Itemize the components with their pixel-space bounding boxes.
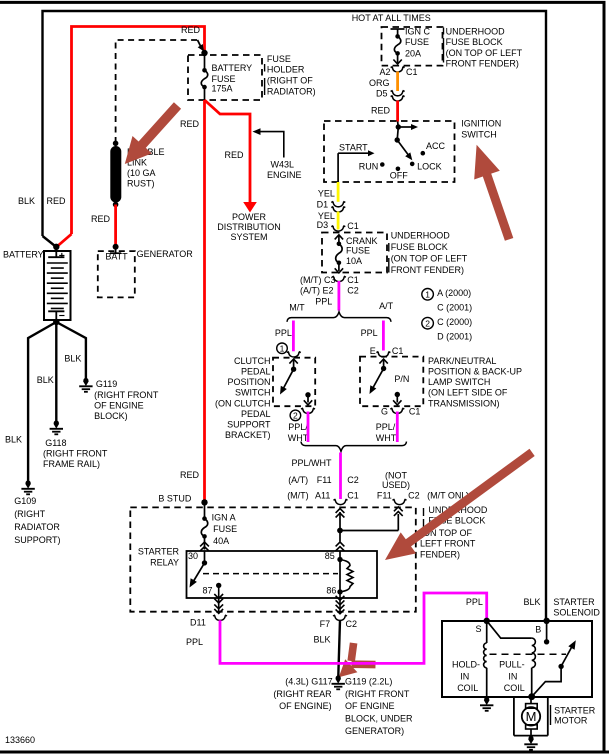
svg-text:(ON LEFT SIDE OF: (ON LEFT SIDE OF [428, 388, 508, 398]
underhood fuse block box (CRANK, dashed) [322, 233, 387, 273]
svg-text:STARTER: STARTER [554, 705, 596, 715]
svg-text:RED: RED [225, 150, 245, 160]
svg-text:C1: C1 [347, 490, 359, 500]
underhood fuse block box (IGN C, dashed) [382, 27, 443, 66]
svg-text:C2: C2 [408, 490, 420, 500]
svg-text:D3: D3 [317, 220, 329, 230]
svg-text:UNDERHOOD: UNDERHOOD [446, 26, 506, 36]
svg-text:(ON TOP OF LEFT: (ON TOP OF LEFT [446, 48, 523, 58]
svg-text:HOLDER: HOLDER [267, 65, 305, 75]
svg-text:PPL: PPL [186, 637, 203, 647]
svg-text:(RIGHT FRONT: (RIGHT FRONT [43, 448, 108, 458]
relay 86 output chevrons [336, 596, 345, 600]
svg-text:BLK: BLK [18, 196, 35, 206]
svg-text:(10 GA: (10 GA [127, 168, 156, 178]
wire dashed (fusible link feed) [116, 40, 198, 143]
svg-text:(M/T) C3: (M/T) C3 [300, 275, 336, 285]
svg-text:C1: C1 [392, 346, 404, 356]
svg-text:A2: A2 [380, 67, 391, 77]
battery fuse 175A symbol [204, 55, 206, 70]
generator box (dashed) [98, 251, 135, 297]
svg-text:F7: F7 [320, 619, 331, 629]
ignition switch input node [397, 122, 400, 128]
svg-text:TRANSMISSION): TRANSMISSION) [428, 398, 500, 408]
svg-text:RED: RED [371, 105, 391, 115]
battery negative node [53, 319, 59, 325]
border frame right [603, 1, 606, 753]
svg-text:87: 87 [203, 585, 213, 595]
wire from A11 connector to junction [336, 509, 345, 513]
connector cup (P/N in) [376, 352, 390, 357]
starter motor enclosure [513, 697, 515, 736]
starter solenoid box [442, 621, 592, 697]
P/N switch arm [372, 369, 384, 390]
junction node (85 feed) [337, 528, 343, 534]
solenoid B contact stub [546, 621, 548, 642]
svg-text:BATTERY: BATTERY [212, 63, 253, 73]
svg-text:BLK: BLK [5, 435, 22, 445]
label bracket ticks (relay underhood) [423, 508, 425, 516]
crank fuse 10A symbol [335, 235, 343, 240]
relay 87 output chevrons [214, 594, 223, 598]
svg-text:C1: C1 [409, 407, 421, 417]
svg-text:PPL/WHT: PPL/WHT [292, 458, 333, 468]
svg-text:BLK: BLK [524, 597, 541, 607]
label bracket tick (starter motor) [550, 705, 552, 725]
connector cup A11/C1 [334, 499, 348, 504]
svg-text:C (2000): C (2000) [437, 317, 472, 327]
svg-text:(ON TOP OF LEFT: (ON TOP OF LEFT [391, 253, 468, 263]
svg-text:LAMP SWITCH: LAMP SWITCH [428, 377, 490, 387]
connector D5 cups [391, 90, 405, 95]
svg-text:B STUD: B STUD [158, 493, 192, 503]
relay pin 87 contact [216, 583, 221, 588]
connector D3/C1 cup [331, 226, 345, 231]
svg-text:G119: G119 [96, 379, 117, 389]
svg-text:OF ENGINE): OF ENGINE) [279, 701, 332, 711]
svg-text:PPL: PPL [466, 597, 483, 607]
svg-text:2: 2 [293, 411, 298, 421]
node B STUD [201, 499, 207, 505]
border frame bottom [0, 751, 609, 754]
svg-text:ENGINE: ENGINE [267, 170, 302, 180]
svg-text:F11: F11 [317, 475, 332, 485]
svg-text:C2: C2 [346, 619, 358, 629]
svg-text:(RIGHT: (RIGHT [14, 509, 45, 519]
power distribution arrowhead [243, 202, 257, 213]
pointer arrow at ground G117/G119 [351, 643, 375, 665]
wire RED fusible link to generator BATT [114, 205, 117, 247]
svg-text:M/T: M/T [289, 302, 305, 312]
svg-text:STARTER: STARTER [553, 597, 595, 607]
svg-text:POWER: POWER [232, 212, 267, 222]
wire BLK to G118 [55, 322, 57, 421]
wire BLK (F7 to ground) [338, 620, 340, 676]
svg-text:FRONT FENDER): FRONT FENDER) [391, 265, 464, 275]
contact START [368, 150, 375, 156]
svg-text:W43L: W43L [271, 159, 295, 169]
wire BLK to G119 [56, 322, 86, 379]
svg-text:A11: A11 [315, 490, 330, 500]
svg-text:IGN C: IGN C [405, 26, 431, 36]
svg-text:85: 85 [325, 551, 335, 561]
svg-text:(RIGHT FRONT: (RIGHT FRONT [345, 689, 410, 699]
ignition switch wiper (to LOCK) [397, 140, 409, 157]
svg-text:(ON CLUTCH: (ON CLUTCH [215, 398, 271, 408]
ground G118 [54, 420, 59, 425]
svg-text:START: START [339, 142, 368, 152]
connector C1 (A2) cup [391, 67, 405, 72]
svg-text:SWITCH: SWITCH [235, 388, 271, 398]
connector cup (P/N out) [390, 408, 404, 413]
svg-text:40A: 40A [213, 536, 229, 546]
wire PPL (crank fuse to split) [337, 281, 340, 311]
legend note 1 [422, 289, 434, 301]
svg-text:FRONT FENDER): FRONT FENDER) [446, 59, 519, 69]
svg-text:HOLD-: HOLD- [452, 660, 480, 670]
svg-text:HOT AT ALL TIMES: HOT AT ALL TIMES [352, 13, 431, 23]
label bracket ticks (IGN C) [443, 28, 445, 35]
svg-text:G118: G118 [45, 438, 66, 448]
ground G119 [83, 378, 88, 383]
note 1 at clutch switch [277, 343, 288, 354]
svg-text:PEDAL: PEDAL [241, 367, 271, 377]
wire RED battery positive feed [57, 234, 72, 247]
svg-text:WHT: WHT [376, 433, 397, 443]
wire BLK battery negative feed (top run) [43, 11, 547, 620]
wire PPL/WHT (clutch to join) [307, 412, 310, 443]
svg-text:BATTERY: BATTERY [3, 249, 44, 259]
svg-text:DISTRIBUTION: DISTRIBUTION [217, 222, 281, 232]
ignition switch box (dashed) [324, 121, 455, 182]
svg-text:G: G [381, 407, 388, 417]
svg-text:S: S [476, 624, 482, 634]
svg-text:−: − [59, 310, 65, 322]
svg-text:CLUTCH: CLUTCH [234, 356, 271, 366]
pointer arrow at ignition switch [474, 145, 513, 241]
svg-text:IN: IN [460, 672, 469, 682]
underhood fuse block big box (dashed) [130, 507, 416, 611]
svg-text:PPL/: PPL/ [288, 422, 308, 432]
contact RUN dot [380, 162, 385, 167]
svg-text:OF ENGINE: OF ENGINE [94, 400, 144, 410]
svg-text:BLK: BLK [37, 375, 54, 385]
svg-text:C2: C2 [347, 286, 359, 296]
svg-text:PARK/NEUTRAL: PARK/NEUTRAL [428, 356, 496, 366]
ground G109 [26, 480, 31, 485]
svg-text:ORG: ORG [369, 78, 390, 88]
svg-text:OFF: OFF [390, 171, 408, 181]
svg-text:RUN: RUN [359, 161, 379, 171]
svg-text:PEDAL: PEDAL [241, 409, 271, 419]
svg-text:G119 (2.2L): G119 (2.2L) [345, 677, 392, 687]
svg-text:YEL: YEL [318, 188, 335, 198]
battery node (+ terminal junction) [53, 244, 59, 250]
P/N switch output contact [395, 392, 400, 397]
svg-text:C1: C1 [406, 67, 418, 77]
solenoid switch [558, 664, 563, 669]
wire PPL A/T branch [382, 321, 385, 351]
contact OFF dot [396, 167, 401, 172]
IGN C fuse 20A symbol [391, 28, 405, 30]
connector cup D11 [213, 615, 227, 620]
clutch switch input arrow [289, 359, 297, 364]
svg-text:OF ENGINE: OF ENGINE [345, 701, 395, 711]
wire BLK to G109 [28, 322, 56, 481]
svg-text:MOTOR: MOTOR [554, 715, 588, 725]
svg-text:GENERATOR: GENERATOR [137, 249, 194, 259]
svg-text:C1: C1 [347, 221, 359, 231]
svg-text:20A: 20A [405, 48, 421, 58]
park/neutral switch box (dashed) [360, 357, 423, 407]
svg-text:LEFT FRONT: LEFT FRONT [420, 539, 476, 549]
solenoid ground (hold-in) [484, 697, 489, 702]
svg-text:(RIGHT FRONT: (RIGHT FRONT [94, 390, 159, 400]
svg-text:RADIATOR: RADIATOR [14, 522, 60, 532]
ground G117/G119 [336, 675, 341, 680]
ignition switch pivot [397, 127, 398, 140]
connector C1/C2 cup (crank out) [332, 276, 346, 281]
wire RED branch to power distribution [205, 100, 251, 206]
svg-text:133660: 133660 [5, 735, 35, 745]
svg-text:F11: F11 [377, 490, 392, 500]
svg-text:(RIGHT REAR: (RIGHT REAR [273, 689, 332, 699]
svg-text:STARTER: STARTER [138, 546, 180, 556]
svg-text:PPL/: PPL/ [376, 422, 396, 432]
svg-text:1: 1 [425, 289, 430, 299]
wire PPL/WHT (join to connector) [339, 453, 342, 500]
wire PPL (D11 to starter solenoid S) [220, 593, 487, 663]
wire YEL (D1 to D3) [337, 212, 340, 230]
connector cup (clutch switch out) [301, 408, 315, 413]
starter motor ground lead [530, 729, 532, 738]
IGN A fuse 40A symbol [204, 502, 206, 518]
hold-in coil [484, 643, 487, 668]
svg-text:D (2001): D (2001) [437, 331, 472, 341]
svg-text:BLOCK): BLOCK) [94, 411, 128, 421]
svg-text:10A: 10A [346, 256, 362, 266]
wire RED (D5 to ignition switch) [396, 101, 399, 122]
svg-text:(A/T): (A/T) [288, 475, 308, 485]
svg-text:SOLENOID: SOLENOID [553, 607, 600, 617]
svg-text:2: 2 [425, 318, 430, 328]
clutch switch output contact [305, 392, 310, 397]
relay coil (85-86) [339, 560, 341, 592]
svg-text:FUSE: FUSE [346, 246, 370, 256]
wire RED fuse output to B STUD [203, 100, 206, 502]
starter motor brushes [526, 704, 538, 709]
svg-text:CRANK: CRANK [346, 236, 378, 246]
svg-text:WHT: WHT [288, 433, 309, 443]
solenoid internal dashed link [490, 653, 567, 655]
wire S to hold-in coil [486, 621, 488, 643]
svg-text:IN: IN [508, 672, 517, 682]
svg-text:G109: G109 [14, 496, 36, 506]
svg-text:IGN A: IGN A [212, 512, 236, 522]
svg-text:(RIGHT OF: (RIGHT OF [267, 76, 313, 86]
svg-text:RED: RED [181, 25, 201, 35]
svg-text:SYSTEM: SYSTEM [230, 232, 267, 242]
junction node above battery fuse [201, 50, 207, 56]
svg-text:FUSE: FUSE [212, 74, 236, 84]
label bracket ticks (fuse holder) [264, 64, 266, 72]
svg-text:IGNITION: IGNITION [461, 118, 501, 128]
svg-text:FUSE: FUSE [405, 37, 429, 47]
ignition switch feed arrow [398, 126, 413, 128]
svg-text:BRACKET): BRACKET) [225, 430, 271, 440]
W43L engine pointer wire [258, 132, 284, 158]
svg-text:FRAME RAIL): FRAME RAIL) [43, 459, 100, 469]
connector D1 cups [331, 201, 345, 206]
svg-text:BLOCK, UNDER: BLOCK, UNDER [345, 714, 413, 724]
svg-text:C (2001): C (2001) [437, 303, 472, 313]
svg-text:PPL: PPL [361, 328, 378, 338]
wire PPL M/T branch [292, 321, 295, 352]
ground (starter motor) [528, 736, 533, 741]
starter motor M circle [522, 707, 540, 725]
svg-text:P/N: P/N [394, 374, 409, 384]
relay internal dashed link [203, 573, 338, 575]
join brace [301, 442, 407, 452]
solenoid output node [528, 693, 535, 700]
split brace [287, 312, 391, 322]
fuse holder box (dashed) [188, 55, 262, 100]
relay pin 86 contact [337, 589, 342, 594]
note 2 at clutch switch [290, 410, 301, 421]
clutch pedal position switch box (dashed) [273, 358, 315, 407]
label bracket ticks (crank) [388, 243, 390, 252]
svg-text:175A: 175A [212, 83, 233, 93]
svg-text:PULL-: PULL- [499, 660, 525, 670]
wire YEL (ignition to D1) [337, 182, 340, 202]
svg-text:RED: RED [180, 470, 200, 480]
svg-text:LOCK: LOCK [417, 161, 442, 171]
svg-text:86: 86 [326, 585, 336, 595]
svg-text:FUSE: FUSE [213, 524, 237, 534]
connector cup (clutch switch in) [287, 352, 301, 357]
svg-text:(4.3L) G117: (4.3L) G117 [285, 677, 332, 687]
relay pin 30 input [204, 551, 206, 563]
svg-text:SUPPORT): SUPPORT) [14, 535, 60, 545]
svg-text:D11: D11 [190, 617, 206, 627]
pointer arrow at starter relay [385, 449, 535, 560]
svg-text:RED: RED [47, 196, 67, 206]
wire ORG [396, 72, 399, 92]
svg-text:BLK: BLK [64, 353, 81, 363]
svg-text:30: 30 [188, 551, 198, 561]
svg-text:POSITION: POSITION [227, 377, 270, 387]
svg-text:FUSE: FUSE [267, 54, 291, 64]
svg-text:C1: C1 [347, 275, 359, 285]
svg-text:RED: RED [180, 119, 200, 129]
svg-text:C2: C2 [347, 475, 359, 485]
svg-text:UNDERHOOD: UNDERHOOD [391, 230, 451, 240]
generator BATT node [113, 244, 119, 250]
legend note 2 [422, 317, 434, 329]
svg-text:RUST): RUST) [127, 179, 155, 189]
starter relay box [187, 551, 378, 598]
svg-text:BATT: BATT [105, 251, 128, 261]
connector cup F7/C2 [333, 615, 347, 620]
svg-text:SUPPORT: SUPPORT [227, 420, 271, 430]
svg-text:COIL: COIL [504, 683, 525, 693]
generator BATT terminal [115, 247, 117, 254]
svg-text:ACC: ACC [426, 141, 446, 151]
svg-text:RED: RED [91, 214, 111, 224]
svg-text:RADIATOR): RADIATOR) [267, 87, 316, 97]
svg-text:D1: D1 [317, 200, 329, 210]
svg-text:B: B [535, 624, 541, 634]
svg-text:BLK: BLK [314, 634, 331, 644]
svg-text:RELAY: RELAY [150, 558, 179, 568]
pointer arrow at fusible link [125, 102, 181, 164]
svg-text:PPL: PPL [315, 296, 332, 306]
fusible link element [113, 141, 119, 147]
svg-text:E: E [370, 346, 376, 356]
svg-text:COIL: COIL [457, 683, 478, 693]
contact ACC dot [421, 151, 426, 156]
IGN A to relay chevrons [200, 542, 209, 546]
wire S to pull-in coil [487, 621, 532, 638]
solenoid B terminal [543, 618, 549, 624]
relay switch arm [193, 563, 205, 582]
relay pin 85 input [336, 542, 345, 546]
svg-text:POSITION & BACK-UP: POSITION & BACK-UP [428, 367, 522, 377]
clutch switch arm [283, 369, 294, 390]
svg-text:GENERATOR): GENERATOR) [345, 726, 404, 736]
svg-text:A (2000): A (2000) [437, 288, 471, 298]
wire PPL/WHT (P/N to join) [396, 412, 399, 443]
svg-text:USED): USED) [382, 480, 410, 490]
svg-text:(A/T) E2: (A/T) E2 [300, 286, 334, 296]
wire BLK diagonal into battery + node [43, 236, 57, 247]
svg-text:FUSE BLOCK: FUSE BLOCK [446, 37, 503, 47]
battery symbol [44, 251, 71, 320]
pull-in coil [532, 638, 536, 668]
svg-text:1: 1 [280, 343, 285, 353]
svg-text:M: M [526, 709, 537, 724]
connector cup F11/C2 [393, 499, 407, 504]
border frame top [0, 1, 606, 4]
svg-text:FUSE BLOCK: FUSE BLOCK [391, 242, 448, 252]
wire junction to F11/C2 [340, 530, 398, 532]
svg-text:PPL: PPL [275, 328, 292, 338]
svg-text:SWITCH: SWITCH [461, 130, 497, 140]
svg-text:+: + [59, 250, 65, 262]
svg-text:FENDER): FENDER) [420, 550, 460, 560]
solenoid S terminal [484, 618, 490, 624]
P/N switch input arrow [379, 359, 387, 364]
svg-text:(M/T): (M/T) [287, 490, 309, 500]
contact LOCK dot [410, 162, 415, 167]
svg-text:D5: D5 [376, 89, 388, 99]
svg-text:A/T: A/T [379, 301, 394, 311]
